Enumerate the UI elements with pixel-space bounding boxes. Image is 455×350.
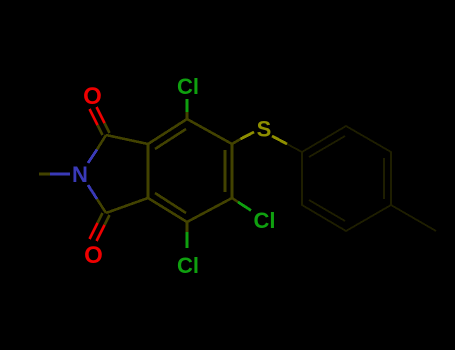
svg-text:Cl: Cl <box>177 253 199 278</box>
bond N to C1 (carbon half) <box>97 135 106 150</box>
C1=O1 double bond <box>90 107 105 125</box>
tolyl ring aromatic inner lines <box>309 136 384 221</box>
methyl on N (C-half of N-CH3 bond) <box>39 173 50 176</box>
benzene ring (left) aromatic inner lines <box>155 129 225 213</box>
bond C1 to C7a <box>106 135 148 144</box>
C3=O3 double bond <box>90 223 105 241</box>
C1=O1 double bond carbon halves <box>98 123 110 135</box>
bond C3 to C3a <box>106 198 148 213</box>
tolyl ring (right) outline <box>302 126 391 231</box>
chlorine Cl middle: carbon half of bond <box>232 198 238 202</box>
svg-text:Cl: Cl <box>177 74 199 99</box>
bond N to C1 (blue half) <box>88 150 97 164</box>
sulfur S: carbon half of ring-S bond <box>232 139 241 144</box>
chlorine Cl middle: green half of bond <box>238 202 251 211</box>
svg-text:O: O <box>84 242 103 269</box>
svg-text:N: N <box>72 162 88 187</box>
bond N to C3 (blue half) <box>88 185 97 199</box>
bond S to tolyl C1: sulfur half <box>272 136 287 144</box>
svg-text:O: O <box>83 83 102 110</box>
bond N to C3 (carbon half) <box>97 199 106 213</box>
methyl on tolyl C4 <box>391 205 436 231</box>
N-half of N-CH3 bond <box>50 173 70 176</box>
chlorine Cl top: green half of bond <box>186 99 189 112</box>
svg-text:S: S <box>257 117 272 142</box>
sulfur S: sulfur half of ring-S bond <box>241 132 255 139</box>
chlorine Cl bottom: green half of bond <box>186 232 189 248</box>
svg-text:Cl: Cl <box>254 208 276 233</box>
bond S to tolyl C1: carbon half <box>287 144 302 152</box>
benzene ring (left) outline <box>148 119 232 222</box>
chlorine Cl top: carbon half of bond <box>186 112 189 119</box>
chlorine Cl bottom: carbon half of bond <box>186 222 189 232</box>
C3=O3 double bond carbon halves <box>98 213 110 225</box>
